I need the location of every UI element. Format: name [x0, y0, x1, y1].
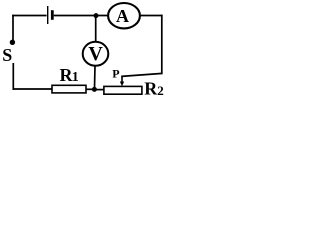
wire junction to R2 — [97, 89, 105, 91]
resistor R1 box — [52, 85, 86, 93]
svg-text:S: S — [2, 45, 12, 65]
switch S terminal dot — [10, 40, 15, 45]
node junction top (voltmeter tap) — [94, 13, 99, 18]
battery B1 long plate — [47, 6, 49, 24]
voltmeter V1 circle — [83, 42, 109, 66]
svg-text:1: 1 — [72, 70, 79, 85]
rheostat R2 box — [104, 86, 142, 94]
ammeter A — [108, 3, 140, 28]
wire ammeter to right corner — [140, 15, 163, 17]
svg-text:V: V — [88, 43, 103, 65]
svg-text:A: A — [116, 6, 129, 26]
rheostat wiper P arrow stem — [121, 76, 123, 83]
wire voltmeter top lead — [95, 16, 97, 42]
wire bottom-left horizontal — [13, 88, 53, 90]
wire R1 to junction — [86, 88, 92, 90]
wire left vertical lower — [12, 63, 14, 90]
rheostat wiper arrowhead — [120, 82, 124, 87]
wire top-left horizontal — [12, 15, 46, 17]
wire wiper to right vertical — [121, 73, 162, 76]
svg-text:2: 2 — [157, 83, 164, 98]
svg-text:R: R — [144, 79, 158, 99]
wire battery to ammeter — [54, 15, 108, 17]
svg-text:P: P — [112, 67, 119, 81]
node junction bottom (voltmeter return) — [92, 87, 97, 92]
battery B1 short plate — [51, 10, 54, 20]
wire left vertical upper — [12, 15, 14, 40]
wire right vertical — [161, 15, 163, 74]
wire voltmeter bottom lead — [94, 66, 97, 88]
